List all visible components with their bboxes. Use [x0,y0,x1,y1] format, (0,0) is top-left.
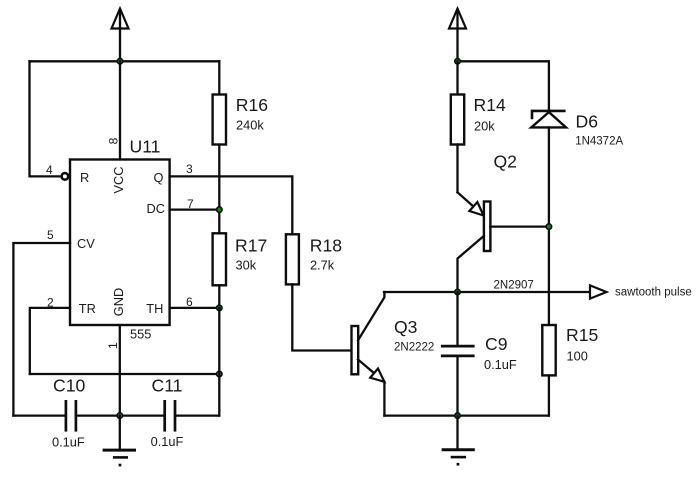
svg-text:5: 5 [47,228,54,242]
wire R16 top [218,61,220,94]
svg-text:TR: TR [79,301,96,316]
wire output horizontal [384,291,590,293]
svg-text:R18: R18 [310,235,342,255]
svg-text:1N4372A: 1N4372A [575,136,623,148]
wire TR to TH lower horizontal [30,373,220,375]
wire bottom middle segment [76,414,165,416]
junction dot pin7 [217,207,223,213]
resistor R14 [451,95,464,145]
capacitor C11 [165,400,175,432]
arrow output sawtooth [590,285,607,298]
power VCC arrow right [449,9,466,62]
wire pin5 CV [13,243,70,416]
svg-text:GND: GND [111,288,126,316]
arrow Q3 emitter [370,369,384,382]
arrow Q2 emitter [469,202,483,216]
wire pin7 DC [170,208,220,210]
wire bottom right horizontal [384,414,549,416]
svg-text:D6: D6 [576,112,599,132]
wire pin6 TH [170,307,220,309]
wire GND pin vertical [119,325,121,416]
wire top right horizontal [458,61,549,111]
svg-text:20k: 20k [474,119,495,134]
wire top-left horizontal [30,60,220,62]
svg-text:3: 3 [186,162,193,176]
junction dot Q2 base D6 [546,224,552,230]
wire right vertical TH chain [218,308,220,416]
diode D6 zener [531,111,566,128]
junction dot ground right [455,413,461,419]
wire Q2 emitter diagonal [458,192,474,206]
wire C9 bottom vertical [456,356,458,416]
transistor Q3 base bar [352,326,359,374]
wire Q3 emitter diagonal [358,360,374,374]
svg-text:2N2222: 2N2222 [394,342,434,354]
junction dot pin6 [217,305,223,311]
svg-text:sawtooth pulse: sawtooth pulse [615,286,692,298]
wire pin8 vertical [119,61,121,159]
junction dot ground left [117,413,123,419]
svg-text:Q3: Q3 [394,317,418,337]
wire R15 bottom [548,375,550,415]
svg-text:1: 1 [106,342,120,349]
wire Q3 collector diagonal [358,292,384,340]
wire left vertical to pin4 [30,61,61,176]
resistor R15 [542,325,555,375]
svg-text:C9: C9 [485,334,508,354]
svg-text:CV: CV [77,236,95,251]
junction dot lower right [217,371,223,377]
resistor R18 [286,234,299,284]
junction dot VCC right [455,59,461,65]
svg-text:R14: R14 [474,95,506,115]
wire R14 top [456,61,458,94]
resistor R17 [213,233,226,285]
svg-text:0.1uF: 0.1uF [52,435,85,450]
ground symbol left [103,416,136,467]
power VCC arrow left [112,9,129,62]
svg-text:2.7k: 2.7k [310,258,335,273]
junction dot VCC left [117,59,123,65]
svg-text:8: 8 [107,137,121,144]
svg-text:R17: R17 [235,235,267,255]
svg-text:C10: C10 [53,376,85,396]
capacitor C10 [66,400,76,432]
wire D6 bottom vertical [548,127,550,325]
svg-text:C11: C11 [152,376,183,396]
wire pin3 Q output [170,176,293,234]
wire C9 top vertical [456,292,458,346]
svg-text:2N2907: 2N2907 [494,280,534,292]
svg-text:Q: Q [154,170,164,185]
svg-text:0.1uF: 0.1uF [151,434,184,449]
svg-text:100: 100 [567,348,588,363]
svg-text:240k: 240k [236,118,264,133]
wire R17 bottom to TH [218,285,220,308]
svg-text:Q2: Q2 [494,152,517,172]
transistor Q2 base bar [484,202,491,252]
capacitor C9 [441,346,475,356]
svg-text:R16: R16 [236,95,268,115]
svg-text:0.1uF: 0.1uF [484,357,517,372]
op IC U11 555 body [70,160,170,326]
wire R18 bottom to Q3 base [292,284,351,350]
svg-text:TH: TH [146,301,163,316]
junction dot Q2 collector [455,289,461,295]
svg-text:4: 4 [46,163,53,177]
svg-text:U11: U11 [130,137,161,157]
svg-text:555: 555 [130,327,151,342]
resistor R16 [213,95,226,145]
inverter bubble pin 4 R [62,173,69,180]
ground symbol right [442,416,475,466]
svg-text:VCC: VCC [111,166,126,193]
svg-text:DC: DC [147,201,165,216]
wire R14 bottom to Q2 emitter [456,145,458,193]
wire Q2 collector diagonal [458,236,484,292]
wire bottom left segment [13,414,66,416]
wire pin2 TR [30,308,70,374]
svg-text:R15: R15 [566,325,598,345]
wire R16 bottom to R17 top [218,145,220,234]
wire Q3 emitter vertical [383,382,385,416]
svg-text:R: R [80,170,89,185]
wire Q2 base horizontal [490,225,549,227]
svg-text:30k: 30k [236,258,257,273]
wire bottom right segment [175,414,219,416]
